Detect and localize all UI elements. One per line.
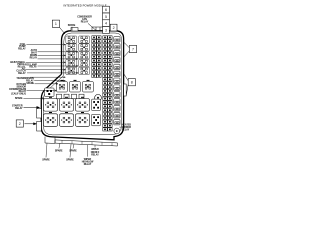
cartridge fuse J6 [114, 71, 120, 77]
label AUTO SHUT DOWN RELAY [30, 49, 38, 60]
leader condenser fan [88, 23, 97, 30]
relay K10 upper-left grid [79, 67, 90, 74]
label SPARE upper [26, 82, 34, 85]
leader line starter relay [24, 106, 40, 108]
fuse cell M19 [92, 71, 96, 74]
svg-text:(CALIF ONLY): (CALIF ONLY) [11, 93, 26, 96]
callout 3 stack [103, 27, 110, 34]
svg-text:RELAY: RELAY [29, 66, 37, 69]
relay L21 lower grid [44, 112, 58, 126]
relay K1 upper-left grid [66, 36, 77, 43]
tiny socket T3 [72, 94, 77, 98]
callout 2 offset [110, 24, 117, 31]
leader line left 6 [38, 65, 79, 67]
cartridge fuse J2 [114, 44, 120, 50]
left connector bump upper [37, 109, 42, 119]
small relay L14 [92, 99, 101, 111]
cartridge fuse J10 [114, 99, 120, 105]
fuse cell M13 [92, 59, 96, 62]
label WIPER ON/OFF RELAY [91, 149, 100, 156]
leader callout 7 upper [124, 42, 130, 48]
fuse cell M1 [92, 36, 96, 39]
leader callout 7 lower [124, 51, 130, 57]
fuse cell M21 [92, 74, 96, 77]
relay K2 upper-left grid [79, 36, 90, 43]
top tab A [71, 28, 78, 31]
fuse cell M24 [103, 82, 107, 85]
svg-text:7: 7 [132, 47, 134, 51]
fuse cell M17 [92, 67, 96, 70]
label OXYGEN SENSOR DOWNSTREAM RELAY (CALIF ONLY) [9, 84, 26, 96]
relay L23 lower grid [76, 112, 90, 126]
svg-text:RELAY: RELAY [30, 56, 38, 59]
screw boss bottom-right [114, 128, 120, 134]
svg-text:RELAY: RELAY [91, 153, 99, 156]
label STARTER RELAY [12, 105, 23, 111]
fuse cell M14 [103, 59, 107, 62]
svg-text:SPARE: SPARE [66, 159, 74, 162]
svg-text:2: 2 [113, 26, 115, 30]
round cap [95, 94, 102, 101]
tiny socket T4 [79, 94, 84, 98]
svg-text:8: 8 [131, 81, 133, 85]
svg-text:RELAY: RELAY [26, 80, 34, 83]
cartridge fuse J9 [114, 92, 120, 98]
fuse cell M11 [92, 55, 96, 58]
label HEATED MIRROR RELAY [122, 123, 132, 131]
label CONDENSER FAN RELAY [77, 17, 92, 24]
relay L22 lower grid [60, 112, 74, 126]
fuse cell M31 [103, 109, 107, 112]
svg-text:2: 2 [19, 122, 21, 126]
svg-text:4: 4 [105, 22, 107, 26]
callout 1 [52, 20, 59, 27]
svg-text:5: 5 [105, 15, 107, 19]
module outer outline [41, 31, 123, 140]
fuse cell M15 [92, 63, 96, 66]
bottom foot [45, 137, 55, 144]
relay R1 mid row [57, 80, 68, 92]
cartridge fuse J8 [114, 85, 120, 91]
leader line oxygen sensor [27, 90, 57, 92]
relay L13 lower grid [76, 97, 90, 111]
svg-text:3: 3 [105, 28, 107, 32]
fuse cell M4 [103, 40, 107, 43]
cartridge fuse J5 [114, 64, 120, 70]
svg-text:6: 6 [105, 8, 107, 12]
svg-text:TRANSMISSION: TRANSMISSION [16, 77, 34, 80]
label SPARE mid [15, 97, 23, 100]
module inner outline [44, 33, 122, 135]
fuse cell M7 [92, 47, 96, 50]
relay L12 lower grid [60, 97, 74, 111]
fuse cell M34 [103, 120, 107, 123]
fuse cell M23 [103, 78, 107, 81]
svg-text:SPARE: SPARE [42, 159, 50, 162]
fuse cell M28 [103, 97, 107, 100]
mini fuse block lower (1 column) [103, 78, 112, 131]
leader line spare upper [35, 83, 59, 85]
svg-text:RELAY: RELAY [18, 47, 26, 50]
fuse cell M9 [92, 51, 96, 54]
fuse cell M30 [103, 105, 107, 108]
relay K6 upper-left grid [79, 52, 90, 59]
label WIPER HIGH/LOW RELAY [82, 159, 94, 166]
callout 4 stack [103, 20, 110, 27]
svg-text:RELAY: RELAY [15, 107, 23, 110]
callout 6 stack [103, 6, 110, 13]
cartridge fuse J3 [114, 50, 120, 56]
svg-text:INTEGRATED POWER MODULE: INTEGRATED POWER MODULE [63, 3, 106, 7]
bottom leader lines [46, 143, 95, 158]
fuse cell M32 [103, 112, 107, 115]
relay R3 mid row [83, 80, 94, 92]
leader line left 9 [30, 76, 65, 78]
relay K3 upper-left grid [66, 44, 77, 51]
cartridge fuse J1 [114, 37, 120, 43]
label TRANSMISSION RELAY [16, 77, 34, 83]
cartridge fuse J13 [114, 119, 120, 125]
cartridge fuse J12 [114, 113, 120, 119]
fuse cell M8 [103, 47, 107, 50]
svg-text:1: 1 [55, 22, 57, 26]
leader spare top [71, 27, 73, 31]
leader line left 1 [26, 44, 65, 46]
module bottom edge [52, 137, 114, 140]
svg-text:RELAY: RELAY [122, 129, 130, 132]
label FUEL PUMP RELAY [18, 44, 26, 51]
fuse cell M3 [92, 40, 96, 43]
top tab B [92, 27, 104, 31]
fuse cell M36 [103, 128, 107, 131]
svg-text:RELAY: RELAY [81, 21, 89, 24]
fuse cell M35 [103, 124, 107, 127]
fuse cell M5 [92, 44, 96, 47]
cartridge fuse J4 [114, 57, 120, 63]
right edge bump [124, 84, 127, 96]
label A/C CLUTCH RELAY [16, 67, 26, 74]
leader heated mirror [119, 126, 121, 128]
fuse cell M26 [103, 89, 107, 92]
fuse cell M27 [103, 93, 107, 96]
leader line left 8 [27, 72, 78, 74]
leader line left 7 [26, 69, 65, 71]
relay R2 mid row [70, 80, 81, 92]
svg-text:SPARE: SPARE [68, 24, 76, 27]
callout 5 stack [103, 13, 110, 20]
fuse cell M22 [103, 74, 107, 77]
fuse cell M12 [103, 55, 107, 58]
small relay L24 [92, 114, 101, 126]
svg-text:SPARE: SPARE [15, 97, 23, 100]
mini fuse block upper (2 columns) [92, 36, 112, 78]
small box left mid [45, 88, 55, 97]
leader line spare mid [23, 98, 44, 100]
label ADJUSTABLE PEDAL RELAY [10, 61, 26, 68]
callout 7 [129, 45, 136, 52]
leader callout 8 upper [124, 74, 128, 81]
left connector bump lower [37, 122, 42, 132]
callout 2 left [16, 120, 23, 127]
tiny socket T1 [57, 94, 62, 98]
leader line callout 2 [25, 123, 37, 125]
svg-text:SPARE: SPARE [26, 82, 34, 85]
callout 8 [128, 79, 135, 86]
leader line left 4 [38, 58, 79, 60]
cartridge fuse J7 [114, 78, 120, 84]
cartridge fuse J11 [114, 106, 120, 112]
fuse cell M10 [103, 51, 107, 54]
relay K5 upper-left grid [66, 52, 77, 59]
fuse cell M2 [103, 36, 107, 39]
svg-text:RELAY: RELAY [84, 163, 92, 166]
svg-text:RELAY: RELAY [18, 72, 26, 75]
relay K7 upper-left grid [66, 59, 77, 66]
bottom rail [55, 140, 118, 146]
leader line left 2 [38, 51, 79, 53]
fuse cell M16 [103, 63, 107, 66]
label FOG LAMP RELAY [25, 63, 37, 68]
fuse cell M33 [103, 116, 107, 119]
fuse cell M18 [103, 67, 107, 70]
relay K8 upper-left grid [79, 59, 90, 66]
leader line left 5 [26, 62, 66, 64]
fuse cell M6 [103, 44, 107, 47]
leader callout 1 [59, 27, 65, 34]
leader callout 8 lower [126, 84, 128, 95]
fuse cell M29 [103, 101, 107, 104]
relay K4 upper-left grid [79, 44, 90, 51]
leader line left 3 [38, 55, 66, 57]
leader line left 10 [34, 80, 65, 82]
relay K9 upper-left grid [66, 67, 77, 74]
relay L11 lower grid [44, 97, 58, 111]
fuse cell M25 [103, 86, 107, 89]
svg-text:SPARE: SPARE [55, 149, 63, 152]
tiny socket T2 [64, 94, 69, 98]
svg-text:HEATED: HEATED [122, 123, 131, 126]
fuse cell M20 [103, 71, 107, 74]
